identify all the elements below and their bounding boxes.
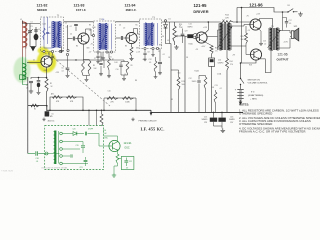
wire Q4 collector up to rail: [205, 22, 208, 33]
wire coil top to tuning cap: [23, 21, 41, 24]
base bias cap to ground: [75, 27, 77, 32]
resistor R17 above bus: [214, 92, 217, 103]
wire to transistor base (green): [98, 134, 100, 147]
capacitor C18 (green): [35, 151, 37, 155]
T2 internal bottom caps: [99, 45, 102, 47]
T3 windings (blue): [144, 23, 155, 46]
diode D1 detector: [165, 22, 167, 25]
battery B1: [240, 85, 242, 90]
dashed pointer line mixer to oscillator inset: [48, 53, 110, 106]
osc cap C21 (green): [84, 159, 88, 161]
volume control R10 (pot): [174, 22, 176, 26]
wiper wire to C11: [180, 35, 186, 37]
cluster under T2: C7 R6: [100, 52, 102, 62]
oscillator coil L2 (green): [22, 49, 24, 58]
electrolytic C5 at bus junction: [46, 110, 48, 111]
Q3 emitter network: [131, 44, 133, 47]
IF transformer T3 (dashed can): [140, 19, 162, 49]
transistor Q6 output lower: [250, 49, 261, 60]
transistor Q1 mixer: [41, 56, 52, 67]
Q4 emitter chain R13 C14: [205, 42, 212, 46]
IF transformer T2 (dashed can): [94, 21, 116, 52]
switch S1: [287, 11, 288, 12]
bias divider between bases: [245, 26, 247, 33]
wire rail drop at x237 to top B- rail: [236, 8, 238, 23]
top B- rail to switch: [237, 8, 288, 13]
resistor R16 into osc box: [100, 114, 103, 126]
yellow-marked oscillator injection wire: [27, 62, 41, 64]
decoupling cluster C10 R9: [121, 61, 128, 63]
printed circuit note: [132, 118, 134, 120]
capacitor C6 coupling: [116, 37, 121, 39]
T1 internal padder cap + resistor (blue): [43, 28, 45, 40]
bypass C6A column: [67, 56, 69, 68]
wire Q3 collector to T3: [134, 29, 140, 35]
cap C17 across speaker line: [282, 11, 284, 13]
bus right segment: [151, 110, 243, 112]
emitter resistor R1 on emitter line: [45, 79, 48, 93]
Q7 emitter resistor (green): [117, 150, 119, 154]
wire rail T2 to T3: [116, 21, 140, 23]
coupling from T1 secondary: [67, 25, 69, 52]
osc bottom wire: [62, 163, 88, 165]
electrolytic C16: [221, 112, 223, 117]
T2 terminal nodes: [92, 34, 94, 36]
wire rail T1 to T2: [64, 21, 94, 23]
antenna rod coil L1 (red): [22, 21, 24, 49]
wire Q5 collector to T5: [260, 19, 273, 29]
tuning capacitor C1 with trimmer: [29, 24, 31, 47]
electrolytic C15: [213, 112, 215, 117]
T3 terminal nodes: [144, 47, 146, 49]
bus corner junction: [46, 105, 48, 107]
electrolytic C11: [185, 35, 187, 37]
shared ground below C15 C16: [214, 125, 223, 127]
Q2 emitter network R4 R5 parallel: [83, 44, 85, 59]
T2 windings (blue): [98, 24, 109, 50]
wire T5 secondary to speaker: [279, 31, 291, 34]
wire parallel to detector: [169, 22, 171, 44]
ground under volume pot: [176, 45, 178, 47]
AVC filter R7A R7B: [50, 97, 83, 110]
T4 secondary wires to output bases: [231, 25, 251, 27]
C18 wire from bus line left: [28, 153, 35, 155]
green coil bottom return: [23, 80, 28, 85]
B- feed line down right side: [241, 8, 243, 64]
wire bus to osc box: [88, 110, 90, 125]
battery return arrow to chassis: [240, 100, 242, 102]
trimmer box (green): [121, 157, 134, 170]
ground at switch: [300, 12, 302, 14]
cluster mid C12: [154, 61, 157, 73]
electrolytic C14: [209, 58, 215, 66]
ground under C3: [30, 89, 32, 91]
Q6 emitter to battery line: [241, 60, 257, 63]
wire Q2 collector to T2: [86, 29, 94, 36]
oscillator transformer core (green): [54, 131, 56, 165]
ground (filled triangle) under tuning cap: [30, 46, 36, 48]
highlight green glow oscillator coil: [14, 57, 31, 83]
osc cap (green): [84, 132, 86, 136]
ground under T2: [102, 56, 104, 58]
wire Q1 collector to T1: [48, 52, 50, 57]
speaker SP1: [291, 31, 294, 39]
transistor Q2 1st IF: [78, 33, 89, 44]
wire Q6 collector loop to T5 bottom: [260, 51, 273, 73]
green tap terminal square: [20, 75, 24, 80]
transistor Q7 oscillator (green): [109, 140, 120, 151]
AVC feed line: [56, 59, 104, 61]
T4 bottom return R14: [226, 50, 228, 59]
resistor R11 to bus: [177, 77, 180, 90]
transistor Q4 driver: [196, 32, 207, 43]
Q7 collector wire: [104, 136, 118, 142]
bypass electrolytic C3B: [38, 78, 40, 81]
T1 terminal nodes: [43, 50, 45, 52]
T2 internal wires: [111, 24, 113, 50]
wire Q1 emitter down to bus: [46, 67, 48, 78]
osc cap C19 (green): [81, 145, 85, 147]
wire to crystal box and ground (green): [114, 164, 118, 174]
oscillator inset dashed box (green): [45, 126, 104, 170]
highlight yellow over mixer Q1: [27, 47, 54, 71]
bias resistors R8 R9: [104, 97, 136, 99]
osc diode (green): [62, 133, 73, 135]
trimmer capacitor C2: [35, 27, 37, 34]
switch on volume control: [240, 78, 241, 79]
T4 tuning arrow: [218, 27, 232, 48]
AVC takeoff wire: [170, 44, 172, 113]
driver emitter bypass pair: [198, 76, 200, 80]
capacitor C4: [68, 38, 73, 40]
ground bus left segment: [27, 77, 29, 154]
ground row under T1 area: [61, 49, 63, 51]
transistor Q3 2nd IF: [126, 32, 137, 43]
wire rail T3 to output stage: [162, 21, 221, 23]
T1 internal wires: [43, 17, 45, 48]
T3 internal bottom cap: [146, 42, 149, 44]
transformer terminal nodes: [60, 132, 63, 135]
T4 primary wire from rail: [224, 22, 226, 24]
osc tap wire: [62, 155, 70, 157]
small label above osc box: [43, 118, 45, 120]
stubs and bypass caps under IF cans: [52, 53, 54, 56]
capacitor C9: [182, 29, 184, 34]
IF transformer T1 (dashed can): [41, 17, 64, 52]
printed circuit pointer arrow: [150, 112, 153, 115]
osc mid wire: [62, 141, 83, 143]
T5 tuning arrow: [268, 30, 281, 48]
emitter bypass C3: [31, 78, 47, 80]
wire detector to volume pot: [166, 34, 172, 44]
emitter resistors to ground: [259, 29, 261, 41]
transistor Q5 output upper: [250, 19, 261, 30]
wire bus to osc box 2: [96, 110, 98, 125]
T1 windings (blue): [51, 22, 62, 48]
T4 primary lead from Q4: [207, 36, 217, 38]
paper scan noise: [0, 0, 1, 1]
